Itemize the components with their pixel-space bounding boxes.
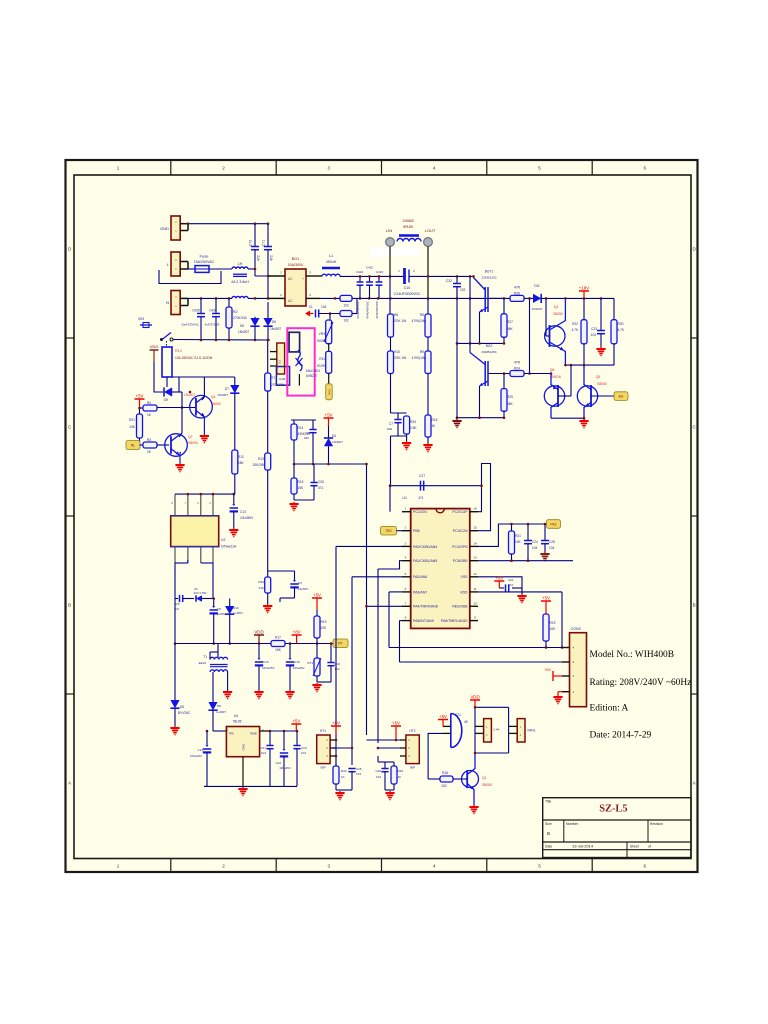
svg-text:10A-250VAC SJ-S-112DM: 10A-250VAC SJ-S-112DM [175, 356, 213, 360]
svg-text:47R: 47R [514, 361, 521, 365]
svg-text:C27: C27 [419, 474, 425, 478]
svg-text:SZ-L5: SZ-L5 [599, 804, 627, 815]
wire C32 riser [456, 287, 458, 418]
svg-text:1N4007: 1N4007 [332, 440, 343, 444]
resistor R22 4.7K [583, 298, 585, 319]
svg-text:+5V: +5V [332, 720, 340, 725]
svg-text:U3: U3 [278, 360, 282, 364]
resistor R5 470K1W [427, 298, 429, 314]
ground C23 [600, 347, 602, 349]
ground C13 [233, 528, 235, 530]
wire pin14 to PA2 rail [478, 524, 547, 546]
svg-text:U2: U2 [221, 538, 225, 542]
wire driver stage tap [529, 298, 531, 373]
svg-text:LL4007: LL4007 [216, 710, 226, 714]
ground R32 C25 [339, 791, 341, 793]
svg-text:S8050: S8050 [211, 402, 221, 406]
svg-text:4A 2 3.8uH: 4A 2 3.8uH [231, 280, 249, 284]
svg-text:R4: R4 [147, 401, 151, 405]
svg-text:C424: C424 [356, 270, 364, 274]
svg-text:PA3: PA3 [328, 389, 332, 395]
ground R33 [267, 604, 269, 606]
svg-text:104: 104 [508, 583, 513, 587]
svg-text:Q7: Q7 [188, 435, 193, 439]
capacitor CY2 [254, 224, 256, 246]
svg-text:R33: R33 [258, 580, 264, 584]
svg-text:C18: C18 [294, 660, 300, 664]
wire pin5 to bus B [352, 576, 402, 578]
svg-text:19-Jul-2014: 19-Jul-2014 [572, 844, 594, 849]
svg-text:D8: D8 [217, 704, 221, 708]
resistor R9 470K1W [427, 337, 429, 351]
wire RT1 ground rail [317, 681, 331, 683]
wire divider output [293, 440, 295, 464]
fuse bypass loop wire [159, 270, 221, 284]
connector L [171, 252, 180, 276]
svg-text:0.24UF/2000VDC: 0.24UF/2000VDC [394, 292, 421, 296]
wire pin3 to bus A [336, 545, 402, 547]
wire PSU left drop [174, 599, 176, 644]
svg-text:LL4007: LL4007 [233, 611, 243, 615]
resistor R11 510R [326, 351, 332, 373]
capacitor C32 102 [456, 276, 458, 283]
svg-text:B: B [693, 603, 696, 608]
wire R9 down [427, 374, 429, 416]
svg-text:2.5K: 2.5K [410, 426, 417, 430]
resistor R12 15K [232, 450, 238, 474]
resistor R19 22K [316, 610, 318, 616]
diode D8 LL4007 [208, 702, 217, 710]
svg-text:R15: R15 [298, 480, 304, 484]
svg-text:BGT1: BGT1 [485, 270, 494, 274]
svg-text:1N4007: 1N4007 [217, 393, 228, 397]
svg-text:R23: R23 [550, 621, 556, 625]
svg-text:104: 104 [335, 667, 340, 671]
wire U4 out rail [270, 730, 297, 732]
svg-text:474K/400VDC: 474K/400VDC [375, 301, 379, 319]
tag 79G on pin2 [381, 526, 397, 535]
svg-text:16: 16 [473, 507, 477, 511]
svg-text:T1: T1 [203, 655, 207, 659]
ground D6 [174, 726, 176, 728]
svg-text:13: 13 [473, 556, 477, 560]
fuse Fuse 15A/250VAC [188, 268, 195, 270]
U2 top pins [174, 494, 176, 516]
highlight box magenta [287, 328, 314, 395]
tag RT output [333, 639, 348, 648]
wire fan supply loop [475, 706, 509, 708]
bus wire D [377, 569, 379, 743]
svg-text:PA2/AN6: PA2/AN6 [413, 575, 427, 579]
svg-text:474K/400VDC: 474K/400VDC [365, 301, 369, 319]
svg-text:Sheet: Sheet [630, 844, 639, 848]
svg-text:C32: C32 [446, 279, 452, 283]
ground Q7 emitter [179, 453, 181, 464]
svg-text:PA5/INT/AN9: PA5/INT/AN9 [413, 619, 434, 623]
capacitor C17 104 [269, 731, 271, 745]
svg-text:D5: D5 [240, 324, 244, 328]
svg-text:Q4: Q4 [211, 395, 216, 399]
tag BG output [614, 392, 628, 401]
svg-text:GND: GND [242, 743, 246, 751]
svg-text:2.4K: 2.4K [493, 728, 499, 732]
resistor R6 470K 1W [389, 276, 391, 314]
svg-text:4: 4 [433, 864, 436, 869]
svg-text:2SDB1253: 2SDB1253 [482, 350, 497, 354]
svg-text:PC2/CUP: PC2/CUP [452, 510, 468, 514]
wire pin7 to bus C [367, 605, 403, 607]
svg-text:104: 104 [301, 751, 306, 755]
svg-text:R10: R10 [394, 350, 400, 354]
svg-text:270K/2W: 270K/2W [271, 383, 284, 387]
svg-text:C28: C28 [549, 540, 555, 544]
tag PA2 [547, 520, 561, 529]
ground U4 rail [242, 787, 244, 789]
wire C27 to pin1 [389, 486, 391, 512]
ground driver earth [456, 419, 458, 421]
svg-text:15K: 15K [238, 461, 245, 465]
svg-text:Date: Date [545, 844, 552, 848]
svg-text:PA1/CKB1/AN5: PA1/CKB1/AN5 [413, 559, 437, 563]
svg-text:14: 14 [473, 541, 477, 545]
diode D4 1N4007 [328, 426, 330, 438]
capacitor C16 104 [330, 644, 332, 663]
regulator U4 78L05 [226, 727, 259, 757]
svg-text:1: 1 [117, 864, 120, 869]
svg-text:MAC2501: MAC2501 [306, 369, 320, 373]
inductor L1 450uH [322, 267, 340, 270]
power port arrow CL node [305, 311, 310, 317]
svg-text:3: 3 [328, 166, 331, 171]
U1 pin stubs right [470, 511, 478, 513]
svg-text:C21: C21 [508, 578, 514, 582]
ground Q1 [473, 805, 475, 807]
svg-text:C14: C14 [197, 748, 203, 752]
svg-text:Number: Number [566, 822, 579, 826]
svg-text:1N4007: 1N4007 [184, 393, 195, 397]
svg-text:10K: 10K [129, 425, 136, 429]
svg-text:RT1: RT1 [307, 661, 313, 665]
svg-text:VDD: VDD [150, 344, 159, 349]
svg-text:R19: R19 [321, 620, 327, 624]
svg-text:R21: R21 [129, 418, 135, 422]
svg-text:of: of [648, 844, 651, 848]
svg-text:HT1: HT1 [320, 729, 326, 733]
svg-text:22K: 22K [321, 626, 328, 630]
capacitor C14 100u25V [206, 731, 208, 745]
svg-text:R12: R12 [238, 455, 244, 459]
svg-text:C9: C9 [306, 431, 310, 435]
svg-text:S8050: S8050 [597, 382, 607, 386]
svg-text:PA3/AN7: PA3/AN7 [413, 590, 427, 594]
pad LIN [386, 238, 395, 247]
svg-text:GND: GND [160, 226, 169, 231]
ground Q5 Q6 emitters [583, 419, 585, 421]
wire R34 cluster to C27 node [390, 436, 392, 486]
tag RL input [126, 441, 140, 450]
ground T1 secondary [227, 690, 229, 692]
capacitor C18 100u25V [289, 644, 291, 659]
wire pin16 pin15 loop [478, 464, 491, 531]
bus wire C [366, 464, 368, 735]
svg-text:+8V: +8V [293, 629, 301, 634]
svg-text:1u50V: 1u50V [217, 612, 226, 616]
svg-text:S8050: S8050 [188, 441, 198, 445]
svg-text:104: 104 [261, 751, 266, 755]
svg-text:10K: 10K [515, 540, 522, 544]
svg-text:RT: RT [338, 642, 342, 646]
wire pin12 VSS to ground [478, 577, 522, 594]
svg-text:102: 102 [343, 304, 349, 308]
svg-text:VDD: VDD [254, 629, 263, 634]
svg-text:D6: D6 [272, 320, 276, 324]
svg-text:C8: C8 [217, 607, 221, 611]
wire Q6 base riser [570, 365, 572, 396]
svg-text:Rating: 208V/240V ~60Hz: Rating: 208V/240V ~60Hz [590, 678, 692, 688]
wire pin6 PA3 net [389, 591, 402, 593]
svg-text:C20: C20 [375, 769, 381, 773]
svg-text:Q3: Q3 [554, 305, 559, 309]
wire GND to CY caps [188, 223, 268, 225]
transistor Q7 S8050 [165, 434, 188, 457]
svg-text:20K/2W: 20K/2W [253, 463, 264, 467]
svg-text:VSS: VSS [460, 575, 468, 579]
resistor R10 470K 1W [390, 337, 392, 351]
svg-text:474K/400VDC: 474K/400VDC [356, 301, 360, 319]
svg-text:2: 2 [222, 166, 225, 171]
capacitor C19 104 [296, 731, 298, 745]
svg-text:C6: C6 [175, 607, 179, 611]
IC U2 GPaw21A [171, 516, 219, 547]
svg-text:51K: 51K [259, 586, 264, 590]
svg-text:Date: 2014-7-29: Date: 2014-7-29 [590, 731, 652, 741]
svg-text:VDD: VDD [460, 590, 468, 594]
wire HT1 bus B join [330, 747, 352, 749]
svg-text:C17: C17 [260, 746, 266, 750]
svg-text:471: 471 [418, 496, 424, 500]
svg-text:5: 5 [538, 166, 541, 171]
svg-text:100u25V: 100u25V [293, 666, 305, 670]
svg-text:1K: 1K [398, 775, 402, 779]
svg-text:RL: RL [131, 443, 135, 447]
svg-text:R31: R31 [515, 534, 521, 538]
svg-text:15K: 15K [275, 648, 282, 652]
svg-text:1N4007: 1N4007 [532, 307, 543, 311]
wire caps bottom ground rail [204, 785, 297, 787]
svg-text:470K(1W): 470K(1W) [412, 356, 426, 360]
resistor R27 56K [503, 298, 505, 313]
connector JP1 2.4K [484, 719, 492, 742]
wire R10 down to divider cluster [390, 374, 392, 414]
thermistor RT1 [316, 644, 318, 659]
capacitor C22 100u/25V [283, 731, 285, 749]
resistor R3 1K [140, 444, 144, 446]
svg-text:GPaw21A: GPaw21A [221, 545, 237, 549]
svg-text:+5V: +5V [439, 714, 447, 719]
zone ticks and labels [170, 160, 172, 175]
svg-text:5: 5 [538, 864, 541, 869]
schematic sheet [66, 160, 698, 872]
bridge rectifier BG1 15A/300V [285, 269, 306, 306]
svg-text:B: B [547, 831, 550, 836]
svg-text:PA2: PA2 [550, 522, 556, 526]
svg-text:472: 472 [257, 255, 261, 261]
pad LOUT [424, 238, 433, 247]
svg-text:Q6: Q6 [550, 368, 555, 372]
U1 pin stubs left [402, 511, 411, 513]
svg-text:C425: C425 [192, 309, 200, 313]
wire pin13 rail [478, 560, 573, 562]
svg-text:2SDB1253: 2SDB1253 [482, 276, 497, 280]
svg-text:R13: R13 [258, 457, 264, 461]
svg-text:S9016: S9016 [551, 375, 561, 379]
capacitor C24 104 [527, 524, 529, 540]
svg-text:4uF/275VE: 4uF/275VE [204, 323, 219, 327]
capacitor CL 104 [315, 310, 317, 318]
capacitor C27 471 [390, 485, 482, 487]
ground R29 C20 [389, 791, 391, 793]
svg-text:90P: 90P [320, 766, 325, 770]
capacitor C8 1u/50V [213, 599, 215, 607]
svg-text:D9: D9 [164, 398, 168, 402]
svg-text:1K2: 1K2 [441, 784, 447, 788]
svg-text:HT2: HT2 [409, 729, 415, 733]
svg-text:VR3: VR3 [319, 332, 326, 336]
svg-text:+5V: +5V [325, 412, 333, 417]
resistor R25 56K [503, 374, 505, 389]
capacitor C15 100u/25V [258, 644, 260, 659]
wire pin8 to CON3 pin3 [400, 620, 403, 622]
connector CON3 [570, 633, 587, 707]
connector HT1 [317, 735, 330, 764]
svg-text:Vin: Vin [229, 732, 234, 736]
wire switch rail [173, 339, 270, 342]
wire pin4 to bus D [378, 561, 402, 569]
svg-text:6VB227: 6VB227 [306, 374, 318, 378]
svg-text:15: 15 [473, 526, 477, 530]
svg-text:1K: 1K [341, 775, 345, 779]
svg-text:C10: C10 [404, 286, 411, 290]
svg-text:L1: L1 [329, 254, 333, 258]
svg-text:R11: R11 [319, 357, 325, 361]
svg-text:C23: C23 [591, 327, 597, 331]
capacitor C20 104 [377, 756, 379, 762]
wire L1 to LIN node [340, 275, 404, 277]
ground below R16 [427, 443, 429, 445]
wire to U4 [213, 730, 226, 732]
svg-text:BG2: BG2 [486, 344, 493, 348]
svg-text:R25: R25 [507, 395, 513, 399]
svg-text:472: 472 [270, 255, 274, 261]
U2 bottom pins [174, 547, 176, 563]
wire LOUT down [427, 246, 429, 298]
svg-text:C13: C13 [240, 510, 246, 514]
svg-text:104: 104 [549, 546, 555, 550]
inductor LH common mode choke [232, 267, 248, 269]
svg-text:C22: C22 [275, 761, 281, 765]
svg-text:4.7K: 4.7K [618, 328, 625, 332]
svg-text:PC3/C2N: PC3/C2N [453, 529, 468, 533]
svg-text:+5V: +5V [542, 595, 550, 600]
relay RL1 coil [162, 347, 172, 377]
svg-text:15A/250VAC: 15A/250VAC [194, 260, 215, 264]
svg-text:C423: C423 [376, 270, 384, 274]
component C2M box [276, 367, 289, 386]
triac squiggle [298, 350, 302, 371]
resistor R4 1K [140, 407, 144, 409]
svg-text:R34: R34 [410, 420, 416, 424]
svg-text:R27: R27 [507, 320, 513, 324]
svg-text:2: 2 [222, 864, 225, 869]
capacitor C28 104 [544, 524, 546, 540]
svg-text:C25: C25 [356, 767, 362, 771]
svg-text:PA4/TMR0/AN8: PA4/TMR0/AN8 [413, 605, 438, 609]
svg-text:470K 1W: 470K 1W [393, 356, 406, 360]
resistor R21 10K [139, 408, 141, 414]
resistor R7 270K/2W [267, 340, 269, 373]
svg-text:R16: R16 [432, 418, 438, 422]
diode D6 BYV26C [174, 644, 176, 701]
wire N line to driver [320, 297, 510, 299]
wire R29 C20 ground rail [385, 789, 394, 791]
resistor R18 1K2 [440, 776, 453, 782]
diode D10 LL4007 [229, 599, 231, 607]
capacitor C6 225 [179, 595, 181, 602]
svg-text:10E: 10E [387, 427, 392, 431]
resistor R13 20K/2W [265, 453, 271, 470]
svg-text:270K/1W: 270K/1W [233, 316, 247, 320]
svg-text:AC: AC [288, 277, 293, 281]
connector GND [171, 216, 180, 240]
wire CON3 pin3 rail [400, 661, 570, 663]
svg-text:9RJB: 9RJB [403, 224, 413, 229]
svg-text:470K 1W: 470K 1W [393, 319, 406, 323]
svg-text:Vout: Vout [250, 732, 256, 736]
svg-text:D7: D7 [225, 387, 229, 391]
svg-text:LOUT: LOUT [425, 228, 436, 233]
svg-text:Revision: Revision [650, 822, 663, 826]
resistor R31 10K [511, 524, 513, 531]
svg-text:104: 104 [376, 775, 381, 779]
svg-text:R14: R14 [298, 426, 304, 430]
resistor R17 15K [271, 641, 285, 647]
svg-text:+5V: +5V [136, 393, 144, 398]
svg-text:RL1: RL1 [175, 349, 182, 353]
svg-text:102: 102 [460, 288, 466, 292]
svg-text:CY1: CY1 [262, 240, 266, 247]
capacitor C13 10U450V [233, 494, 235, 504]
svg-text:+: + [302, 277, 304, 281]
svg-text:PC4/OPN: PC4/OPN [452, 545, 468, 549]
wire T1 secondary out [212, 672, 214, 702]
transistor Q1 S8050 [462, 771, 479, 788]
buzzer BZ1 [450, 714, 452, 748]
svg-text:104: 104 [532, 546, 538, 550]
wire relay to Q4 collector [179, 376, 204, 378]
transistor Q4 S8050 [190, 395, 213, 418]
svg-text:90P: 90P [410, 766, 415, 770]
svg-text:C24: C24 [532, 540, 538, 544]
wire Q4 collector rail to D7 [204, 376, 235, 378]
svg-text:104: 104 [321, 305, 327, 309]
svg-text:C2M: C2M [279, 377, 286, 381]
svg-text:Model No.: WIH400B: Model No.: WIH400B [590, 650, 674, 660]
svg-text:PC1/CIN: PC1/CIN [413, 510, 427, 514]
svg-text:PB6: PB6 [413, 529, 420, 533]
svg-text:D11: D11 [534, 284, 540, 288]
svg-text:11: 11 [473, 587, 476, 591]
white patch [370, 247, 384, 257]
